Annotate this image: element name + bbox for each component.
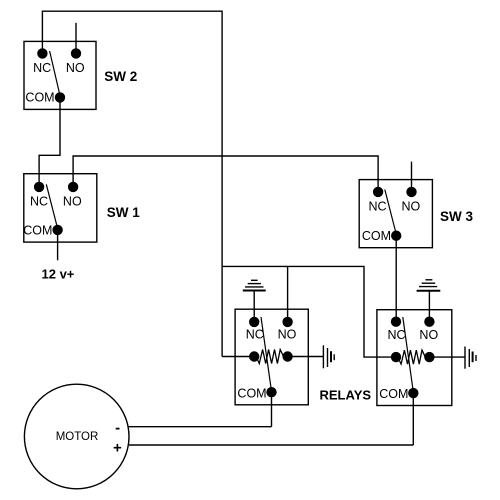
svg-text:COM: COM — [25, 91, 54, 105]
SW2 COM terminal — [55, 92, 65, 102]
wire relay K2 COM down — [412, 393, 414, 445]
wire SW2 NO stub — [75, 23, 77, 54]
wire SW3 COM down to relay K2 NC — [395, 236, 397, 322]
wire relay K2 coil right to ground — [429, 356, 465, 358]
svg-text:NC: NC — [368, 200, 386, 214]
svg-text:NC: NC — [30, 195, 48, 209]
svg-text:NO: NO — [63, 195, 82, 209]
relay K1 NO terminal — [282, 317, 292, 327]
SW3 lever — [385, 190, 396, 235]
svg-text:SW 3: SW 3 — [440, 209, 473, 224]
svg-text:SW 1: SW 1 — [107, 205, 140, 220]
SW1 lever — [46, 184, 57, 228]
relay K2 switch lever — [403, 317, 414, 398]
svg-text:COM: COM — [362, 229, 391, 243]
svg-text:NO: NO — [278, 328, 297, 342]
wire relay K1 NO stub up to bus branch — [287, 266, 289, 322]
wire motor plus — [129, 444, 414, 446]
svg-text:SW 2: SW 2 — [104, 69, 137, 84]
ground symbol right of relay K2 coil — [465, 347, 476, 369]
relay K1 coil right terminal — [282, 351, 292, 361]
svg-text:NO: NO — [402, 200, 421, 214]
relay K1 switch lever — [261, 317, 272, 397]
switch SW2 body — [24, 41, 96, 109]
SW3 NO terminal — [406, 187, 416, 197]
svg-text:MOTOR: MOTOR — [56, 431, 99, 443]
wire bus branch to relay K2 coil — [222, 266, 391, 357]
switch SW3 body — [359, 180, 432, 248]
SW2 lever — [50, 51, 60, 96]
relay K2 COM terminal — [408, 388, 418, 398]
wire SW3 NO stub — [411, 162, 413, 192]
svg-text:COM: COM — [379, 387, 408, 401]
svg-text:12 v+: 12 v+ — [42, 266, 75, 281]
ground symbol above relay K2 NO — [417, 280, 441, 322]
svg-text:+: + — [113, 440, 122, 457]
ground symbol above relay K1 NC — [243, 280, 266, 322]
wire SW1 NO to SW3 NC — [73, 156, 378, 192]
wire SW2 NC up, top bus, right bus down to relay K1 coil — [42, 11, 222, 356]
SW2 NO terminal — [71, 48, 81, 58]
wire SW2 COM down to SW1 NC — [39, 97, 60, 186]
svg-text:NC: NC — [33, 61, 51, 75]
relay K2 coil (zigzag) — [398, 350, 426, 364]
svg-text:COM: COM — [237, 386, 266, 400]
relay K2 NC terminal — [391, 317, 401, 327]
relay K1 coil (zigzag) — [256, 350, 284, 364]
motor M1 body — [24, 384, 129, 489]
relay K2 coil right terminal — [424, 352, 434, 362]
relay K1 COM terminal — [266, 387, 276, 397]
wire motor minus — [129, 426, 272, 428]
SW1 NC terminal — [34, 182, 44, 192]
SW1 NO terminal — [68, 182, 78, 192]
relay K2 NO terminal — [424, 317, 434, 327]
svg-text:RELAYS: RELAYS — [320, 387, 372, 402]
SW1 COM terminal — [52, 225, 62, 235]
svg-text:NC: NC — [246, 328, 264, 342]
relay K1 body — [235, 309, 308, 405]
wire relay K1 COM down to motor minus — [271, 392, 273, 427]
svg-text:NO: NO — [66, 61, 85, 75]
svg-text:NO: NO — [419, 328, 438, 342]
switch SW1 body — [24, 174, 97, 242]
svg-text:COM: COM — [23, 223, 52, 237]
relay K2 body — [377, 310, 452, 406]
svg-text:NC: NC — [387, 328, 405, 342]
wire relay K1 coil right to ground — [288, 356, 324, 358]
svg-text:-: - — [115, 419, 120, 436]
relay K1 coil left terminal — [249, 351, 259, 361]
relay K1 NC terminal — [249, 317, 259, 327]
relay K2 coil left terminal — [391, 352, 401, 362]
wire bus into relay K1 coil left — [222, 356, 250, 358]
SW3 COM terminal — [391, 231, 401, 241]
SW2 NC terminal — [37, 48, 47, 58]
wire SW1 COM stub to 12v+ — [57, 230, 59, 260]
SW3 NC terminal — [373, 187, 383, 197]
ground symbol right of relay K1 coil — [323, 345, 334, 368]
